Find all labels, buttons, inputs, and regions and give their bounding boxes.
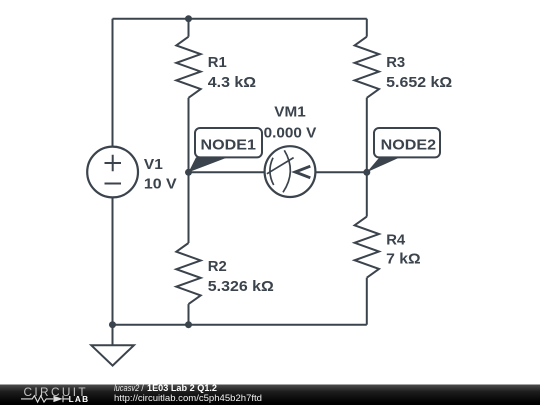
wire below V1 to bottom rail	[112, 198, 114, 325]
wire right branch top lead	[366, 19, 368, 37]
svg-text:NODE1: NODE1	[201, 137, 256, 154]
junction dot NODE1	[185, 169, 192, 176]
junction dot bottom middle	[185, 321, 192, 328]
wire voltmeter to NODE2	[316, 171, 367, 173]
svg-text:7 kΩ: 7 kΩ	[386, 251, 421, 268]
wire NODE1 to voltmeter	[189, 171, 265, 173]
wire right branch NODE2 to R4	[366, 172, 368, 216]
resistor R3	[355, 37, 379, 98]
wire bottom horizontal	[113, 324, 367, 326]
junction dot NODE2	[363, 169, 370, 176]
resistor R1	[176, 37, 200, 98]
svg-text:R1: R1	[208, 54, 227, 71]
junction dot top (middle branch / top wire)	[185, 15, 192, 22]
resistor R2	[176, 243, 200, 304]
svg-text:0.000 V: 0.000 V	[264, 125, 317, 142]
svg-text:V1: V1	[144, 156, 163, 173]
wire top horizontal	[113, 18, 367, 20]
voltage source V1	[87, 147, 138, 198]
svg-text:R4: R4	[386, 231, 406, 248]
svg-text:http://circuitlab.com/c5ph45b2: http://circuitlab.com/c5ph45b2h7ftd	[114, 393, 262, 404]
svg-text:NODE2: NODE2	[381, 137, 436, 154]
wire right branch R3 to NODE2	[366, 98, 368, 173]
logo resistor-diode squiggle	[21, 396, 69, 403]
wire middle branch NODE1 to R2	[188, 172, 190, 243]
svg-text:R2: R2	[208, 258, 227, 275]
svg-text:5.326 kΩ: 5.326 kΩ	[208, 278, 274, 295]
svg-text:LAB: LAB	[69, 395, 90, 404]
resistor R4	[355, 217, 379, 278]
svg-text:4.3 kΩ: 4.3 kΩ	[208, 74, 256, 91]
svg-text:VM1: VM1	[274, 104, 305, 121]
wire middle branch R1 to NODE1	[188, 98, 190, 173]
node NODE2 flag	[367, 128, 440, 172]
junction dot bottom left (ground)	[109, 321, 116, 328]
node NODE1 flag	[189, 128, 263, 172]
svg-text:5.652 kΩ: 5.652 kΩ	[386, 74, 452, 91]
voltmeter VM1	[265, 146, 316, 197]
wire right branch below R4	[366, 278, 368, 325]
wire left vertical (top wire to V1 top)	[112, 19, 114, 147]
svg-text:lucasv2: lucasv2	[114, 383, 139, 393]
wire middle branch top lead	[188, 19, 190, 37]
wire middle branch below R2	[188, 304, 190, 325]
svg-text:R3: R3	[386, 54, 405, 71]
ground	[91, 325, 134, 366]
svg-text:10 V: 10 V	[144, 175, 177, 192]
